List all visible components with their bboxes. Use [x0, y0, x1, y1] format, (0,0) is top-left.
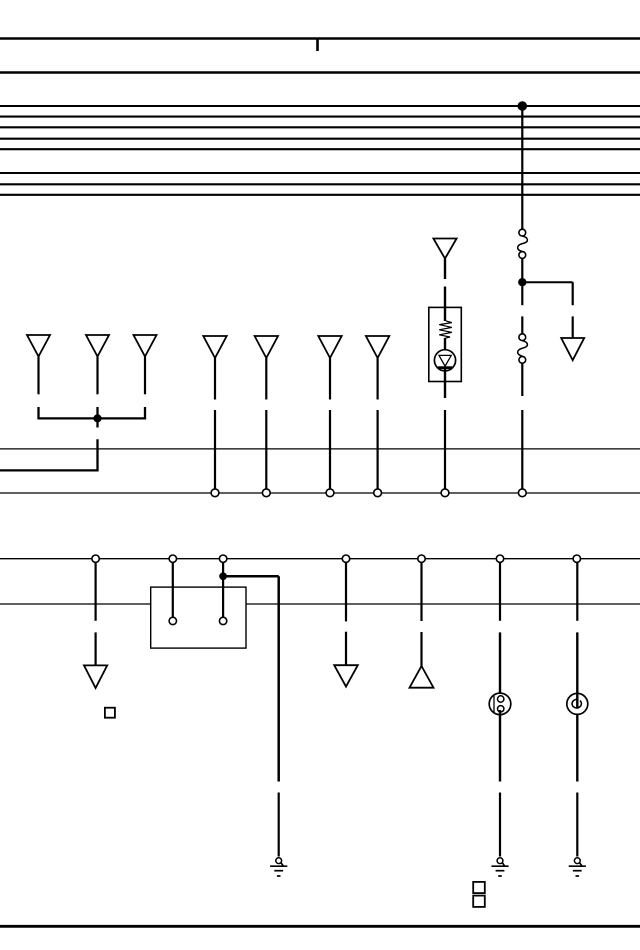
pin circle x172.8 in box — [169, 617, 176, 624]
node tick on rail A — [316, 39, 319, 52]
wire x421.5 lower — [420, 632, 422, 667]
wire stem x377.6 — [377, 358, 379, 400]
wire x223 into box — [222, 562, 224, 617]
wire x346 lower — [345, 632, 347, 666]
wire x500 below bulb — [499, 710, 501, 782]
terminal circle x445 on rail D — [441, 489, 449, 497]
wire x522 after gap — [521, 316, 523, 333]
terminal circle x577 on rail E — [573, 555, 580, 562]
connector pin circle upper 1 — [519, 229, 526, 236]
wire bus line 6 — [0, 172, 640, 174]
heater element H1 spiral — [572, 699, 581, 708]
lamp L1 bar element — [438, 366, 452, 369]
arrow to other circuit (down) x95.6 — [84, 665, 107, 688]
wire bus line 4 — [0, 138, 640, 140]
ground G1 — [270, 858, 287, 876]
node junction dot x522 branch — [519, 279, 526, 286]
wire rail C — [0, 448, 640, 450]
lamp L1 triangle element — [439, 355, 451, 366]
wire vertical x573 upper segment — [572, 282, 574, 305]
wire stem x97.5 — [96, 357, 98, 395]
resistor R1 (scribble) — [439, 321, 452, 338]
wire x577 lowest — [576, 793, 578, 857]
arrow to other circuit (down) x346 — [334, 665, 358, 686]
wire rail F — [0, 603, 640, 605]
wire x577 below heater — [576, 714, 578, 781]
wire x95.6 lower — [94, 632, 96, 665]
wire x172.8 into box — [172, 562, 174, 617]
wire x500 mid — [499, 632, 501, 698]
wire stem inside box — [444, 338, 446, 350]
ground G3 — [569, 858, 586, 876]
terminal circle x377.6 on rail D — [374, 489, 382, 497]
terminal circle x330 on rail D — [326, 489, 334, 497]
wire stem x145 — [144, 357, 146, 395]
wire center stem through bracket — [96, 407, 98, 428]
wire bottom border — [0, 925, 640, 928]
wire stem x330 — [329, 358, 331, 400]
heater element H1 circle — [567, 693, 588, 714]
wire x577 upper — [576, 562, 578, 620]
coiled wire segment 1 — [518, 236, 528, 252]
wire x278.7 long vertical — [277, 576, 280, 781]
wire stem x445 upper — [444, 259, 446, 279]
connector marker square — [105, 708, 115, 718]
lamp unit box U1 — [429, 307, 462, 381]
wire vertical x522 upper — [521, 106, 523, 229]
wire branch horizontal to x573 — [522, 281, 572, 283]
terminal circle x95.6 on rail E — [92, 555, 99, 562]
wire rail D — [0, 492, 640, 494]
terminal circle x346 on rail E — [342, 555, 349, 562]
antenna arrow 5 (x266.3) — [255, 336, 278, 358]
antenna arrow 2 (x97.5) — [86, 335, 109, 357]
antenna arrow 3 (x145) — [134, 335, 157, 357]
terminal circle x421.5 on rail E — [418, 555, 425, 562]
wire bus line 1 — [0, 105, 640, 107]
antenna arrow 8 (x445 above lamp) — [433, 239, 456, 259]
bulb B1 terminal bottom — [498, 706, 504, 712]
wire x421.5 upper — [420, 562, 422, 621]
wire bus line 5 — [0, 148, 640, 150]
coiled wire segment 2 — [518, 341, 528, 357]
wire vertical x573 lower segment — [572, 316, 574, 338]
wire x522 between coil and junction — [521, 258, 523, 282]
arrow from other circuit (up) x421.5 — [410, 666, 434, 688]
wire stem x445 into box — [444, 287, 446, 322]
bulb B1 circle — [489, 693, 511, 715]
wire joining bracket — [39, 407, 146, 418]
wire stem x266 lower — [265, 410, 267, 489]
lamp L1 circle — [434, 350, 455, 371]
terminal circle x522 on rail D — [518, 489, 526, 497]
wire bus line 7 — [0, 183, 640, 185]
wire x500 lowest — [499, 793, 501, 857]
wire x522 below junction — [521, 282, 523, 305]
connector pin circle lower 1 — [519, 334, 526, 341]
antenna arrow 7 (x377.6) — [366, 336, 389, 358]
terminal circle x172.8 on rail E — [169, 555, 176, 562]
wire x522 lowest segment — [521, 410, 523, 489]
wire x522 below coil 2 — [521, 363, 523, 396]
antenna arrow 1 (x38.5) — [27, 335, 50, 357]
wire stem x445 below box — [444, 368, 446, 398]
wire elbow to left edge — [0, 439, 98, 470]
node junction dot at x522 on bus line 1 — [518, 102, 527, 111]
bulb B1 terminal top — [498, 696, 504, 702]
antenna arrow 4 (x215) — [203, 336, 226, 358]
wire x346 upper — [345, 562, 347, 621]
terminal circle x215 on rail D — [211, 489, 219, 497]
wire stem x330 lower — [329, 410, 331, 489]
wire stem x215 lower — [214, 410, 216, 489]
terminal circle x500 on rail E — [496, 555, 503, 562]
wire x577 mid — [576, 632, 578, 708]
wire stem x266 — [265, 358, 267, 400]
wire bus line 8 — [0, 194, 640, 196]
wire top rail B — [0, 71, 640, 74]
pin circle x223 in box — [219, 617, 226, 624]
wire stem x38.5 — [37, 357, 39, 395]
wire x95.6 upper — [94, 562, 96, 620]
connector marker square lower — [473, 896, 485, 907]
arrow to other circuit (down) x573 — [561, 338, 584, 360]
wire branch from x223 to x278.7 — [223, 575, 279, 578]
wire x500 upper — [499, 562, 501, 620]
terminal circle x223 on rail E — [219, 555, 226, 562]
wire bus line 3 — [0, 126, 640, 128]
antenna arrow 6 (x330) — [318, 336, 341, 358]
node junction dot x223 — [220, 573, 227, 580]
connector marker square upper — [473, 882, 485, 893]
ground G2 — [491, 858, 508, 876]
terminal circle x266 on rail D — [262, 489, 270, 497]
bulb B1 chord — [493, 695, 495, 712]
wire bus line 2 — [0, 116, 640, 118]
relay box K1 — [151, 587, 246, 648]
wire stem x445 lowest — [444, 410, 446, 489]
wire stem x215 — [214, 358, 216, 400]
wire rail E — [0, 558, 640, 560]
wire top rail A — [0, 37, 640, 40]
node bracket junction dot — [94, 415, 101, 422]
connector pin circle lower 2 — [519, 356, 526, 363]
connector pin circle upper 2 — [519, 252, 526, 259]
wire x278.7 lower — [278, 793, 280, 857]
wire stem x377.6 lower — [377, 410, 379, 489]
